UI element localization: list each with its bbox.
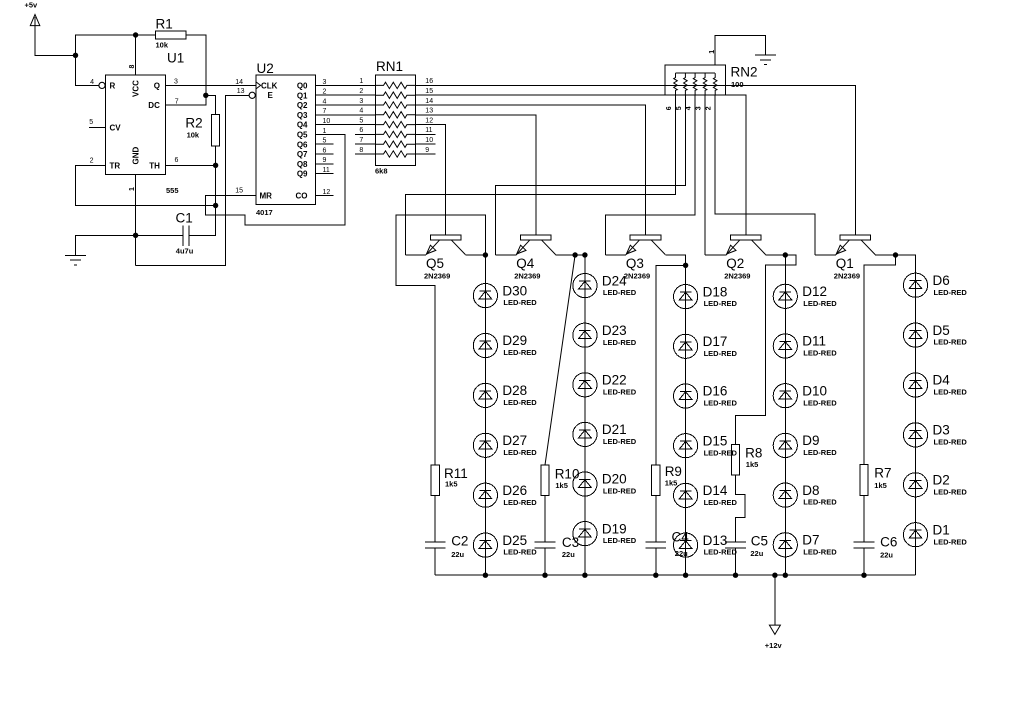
svg-text:16: 16 [425,78,433,85]
U1 pin names [110,80,161,170]
svg-text:2: 2 [706,106,713,110]
svg-text:LED-RED: LED-RED [603,387,637,396]
LED D21 [573,422,637,446]
wire LED column D18-D13 [685,285,687,576]
svg-text:LED-RED: LED-RED [803,349,837,358]
wire bottom supply rail [435,574,915,576]
svg-text:C4: C4 [672,529,690,544]
U2 enable pin bubble [249,92,255,98]
svg-text:14: 14 [425,98,433,105]
svg-text:D29: D29 [502,333,527,348]
resistor R8 [731,445,762,476]
svg-text:D14: D14 [703,483,728,498]
svg-text:5: 5 [359,117,363,124]
svg-text:R8: R8 [745,446,762,461]
svg-text:2: 2 [359,88,363,95]
wire +5v junction down to U1 R pin [76,55,100,85]
LED D12 [773,284,837,308]
U2 pin names left [260,81,278,200]
wire RN2 pin6 to Q5 emitter [405,95,675,255]
svg-text:D3: D3 [933,423,950,438]
svg-text:LED-RED: LED-RED [934,537,968,546]
svg-text:R9: R9 [665,464,682,479]
junction column D13 rail [683,573,688,578]
capacitor C1 [136,211,194,256]
svg-text:D8: D8 [802,483,819,498]
U2 output pin names [296,82,309,201]
svg-text:3: 3 [323,79,327,86]
svg-text:10k: 10k [187,131,200,140]
svg-text:Q0: Q0 [297,82,308,91]
svg-text:7: 7 [323,108,327,115]
svg-text:2N2369: 2N2369 [834,272,860,281]
wire RN2 pin3 to Q2 emitter [704,95,706,255]
LED D27 [473,433,537,457]
svg-text:D10: D10 [802,383,827,398]
U2 pin numbers [235,79,330,196]
svg-text:LED-RED: LED-RED [503,548,537,557]
svg-text:GND: GND [132,147,141,165]
RN2 bottom pin numbers [666,106,713,110]
wire C2 to rail [434,548,436,575]
resistor network RN1 body [375,59,416,175]
svg-text:D22: D22 [602,373,627,388]
svg-text:LED-RED: LED-RED [803,498,837,507]
svg-text:C2: C2 [451,534,468,549]
svg-text:TR: TR [110,161,121,170]
transistor Q4 [514,235,555,281]
RN1 internal resistor row 2 [375,92,415,98]
svg-text:D12: D12 [802,284,827,299]
svg-text:LED-RED: LED-RED [503,498,537,507]
LED D20 [573,472,637,496]
svg-text:D17: D17 [703,334,728,349]
wire LED column D24-D19 [584,274,586,576]
svg-text:C5: C5 [751,534,768,549]
RN1 internal resistor row 8 [375,151,415,157]
wire C4 to rail [655,548,657,575]
LED D30 [473,283,537,307]
LED D24 [573,273,637,297]
resistor R10 [541,465,580,496]
svg-text:15: 15 [235,187,243,194]
svg-text:13: 13 [237,88,245,95]
svg-text:22u: 22u [750,549,763,558]
svg-text:4u7u: 4u7u [176,247,194,256]
svg-text:Q5: Q5 [297,131,308,140]
junction column D7 rail [783,573,788,578]
ground symbol left [65,255,86,265]
svg-text:LED-RED: LED-RED [934,438,968,447]
power +12v symbol [765,575,783,650]
svg-text:C3: C3 [562,535,579,550]
svg-text:3: 3 [174,79,178,86]
svg-text:555: 555 [166,186,179,195]
wire R11 to C2 [434,496,436,543]
wire Q3 emitter stub [606,254,626,256]
svg-text:12: 12 [323,189,331,196]
svg-text:Q7: Q7 [297,150,308,159]
svg-text:10k: 10k [156,40,169,49]
junction Q2 collector node [783,252,788,257]
svg-text:1k5: 1k5 [665,478,678,487]
junction Q3 collector node [683,263,688,268]
svg-text:D26: D26 [502,483,527,498]
svg-text:LED-RED: LED-RED [704,299,738,308]
svg-text:D24: D24 [602,273,627,288]
svg-text:9: 9 [425,147,429,154]
wire LED column D30-D25 [484,284,486,576]
wire Q4 emitter stub [496,254,517,256]
LED D8 [773,483,837,507]
capacitor C6 [854,535,898,560]
svg-text:D13: D13 [703,533,728,548]
svg-text:3: 3 [359,98,363,105]
svg-text:LED-RED: LED-RED [704,399,738,408]
wire R9 to C4 [655,496,657,543]
wire U1 TR pin2 to node B [76,165,216,205]
svg-text:22u: 22u [451,550,464,559]
junction TH node [213,163,218,168]
svg-text:R: R [110,81,116,90]
RN1 internal resistor row 3 [375,102,415,108]
svg-text:14: 14 [235,79,243,86]
wire GND node to ground [76,235,136,255]
U1 pin numbers [89,65,179,192]
svg-text:Q3: Q3 [626,256,644,271]
svg-text:+5v: +5v [25,1,39,10]
resistor R1 [136,17,186,50]
svg-text:LED-RED: LED-RED [704,349,738,358]
svg-text:RN1: RN1 [376,59,403,74]
svg-text:D23: D23 [602,323,627,338]
IC U2 4017 body [256,61,316,217]
junction GND node [133,233,138,238]
wire R8 to C5 with jog [736,475,746,542]
svg-text:2: 2 [323,89,327,96]
svg-text:100: 100 [731,80,744,89]
svg-text:5: 5 [323,138,327,145]
RN2 internal resistor pin 2 [713,73,717,95]
wire Q3 collector to column D18 and R9 [656,255,686,465]
resistor R11 [431,465,468,496]
svg-text:1k5: 1k5 [874,481,887,490]
svg-text:6: 6 [175,157,179,164]
LED D11 [773,334,837,358]
svg-text:MR: MR [260,191,273,200]
wire RN1 pin12 to Q5 base [416,125,446,236]
wire +5v junction up to R1/VCC rail [76,35,136,55]
resistor R7 [860,465,892,496]
svg-text:U2: U2 [257,61,274,76]
wire LED column D12-D7 [784,284,786,575]
junction Q4 collector node 2 [582,252,587,257]
svg-text:D25: D25 [502,533,527,548]
svg-text:RN2: RN2 [731,65,758,80]
svg-text:D19: D19 [602,521,627,536]
junction node A (R1/DC/R2) [203,93,208,98]
svg-text:C6: C6 [880,535,897,550]
junction C5 rail [733,573,738,578]
svg-text:6: 6 [323,147,327,154]
svg-text:LED-RED: LED-RED [503,298,537,307]
RN2 internal resistor pin 4 [693,73,697,95]
svg-text:Q5: Q5 [426,256,444,271]
junction column D25 rail [483,573,488,578]
junction +5v node [73,53,78,58]
svg-text:2: 2 [90,157,94,164]
RN1 internal resistor row 4 [375,112,415,118]
transistor Q3 [624,235,665,281]
LED D2 [903,473,967,497]
svg-text:4: 4 [359,108,363,115]
svg-text:22u: 22u [880,551,893,560]
wire LED column D6-D1 [915,273,917,575]
svg-text:15: 15 [425,88,433,95]
svg-text:22u: 22u [562,550,575,559]
wire VCC node down to U1 pin 8 [135,35,137,75]
svg-text:10: 10 [425,137,433,144]
RN1 left stub wires pins 6-8 [355,134,375,154]
svg-text:1: 1 [359,78,363,85]
svg-text:5: 5 [89,119,93,126]
svg-text:R10: R10 [555,467,580,482]
LED D6 [903,273,967,297]
wire Q1 emitter stub [815,254,836,256]
wire Q5 collector to column D30 and R11 [396,215,486,465]
LED D15 [674,433,738,457]
junction +12v rail tap [772,573,777,578]
wire C3 to rail [544,548,546,575]
junction column D19 rail [582,573,587,578]
svg-text:6: 6 [359,127,363,134]
svg-text:Q: Q [154,81,160,90]
wire Q5 emitter stub [405,254,426,256]
svg-text:R7: R7 [874,466,891,481]
svg-text:CLK: CLK [261,81,278,90]
junction Q4 collector node 1 [572,252,577,257]
RN1 pin numbers [359,78,433,154]
svg-text:4: 4 [323,98,327,105]
svg-text:LED-RED: LED-RED [934,338,968,347]
wire C6 to rail [863,548,865,575]
svg-text:LED-RED: LED-RED [803,547,837,556]
wire Q1 collector to column D6 and R7 [864,255,916,465]
wire R7 to C6 [863,496,865,543]
svg-text:C1: C1 [176,211,193,226]
svg-text:R2: R2 [185,116,202,131]
svg-text:LED-RED: LED-RED [704,548,738,557]
wire RN1 pin13 to Q4 base [416,115,536,235]
wire R1 right to node A [186,35,206,95]
capacitor C5 [725,534,768,558]
wires U2 Q0-Q4 to RN1 pins 1-5 [316,85,376,124]
wire RN2 pin2 to Q1 emitter [715,95,815,255]
svg-text:LED-RED: LED-RED [934,487,968,496]
LED D1 [903,522,967,546]
RN1 right stub wires pins 11-9 [416,134,436,154]
svg-text:D4: D4 [933,373,951,388]
LED D5 [903,323,967,347]
wire U2 MR pin15 to U2 Q5 pin1 net [205,134,345,225]
svg-text:11: 11 [425,127,432,134]
LED D9 [773,433,837,457]
LED D16 [674,384,738,408]
svg-text:D7: D7 [802,533,819,548]
svg-text:D20: D20 [602,472,627,487]
svg-text:LED-RED: LED-RED [603,536,637,545]
junction VCC node [133,32,138,37]
wire RN2 pin5 to Q4 emitter [496,95,686,255]
U2 clock triangle [256,82,261,89]
U2 output stub wires [316,144,334,195]
svg-text:CO: CO [296,191,308,200]
svg-text:D27: D27 [502,433,527,448]
svg-text:+12v: +12v [765,641,783,650]
svg-text:Q6: Q6 [297,140,308,149]
wire U1 Q pin3 to U2 CLK [166,84,257,86]
svg-text:Q8: Q8 [297,160,308,169]
svg-text:Q1: Q1 [297,91,308,100]
svg-text:LED-RED: LED-RED [603,338,637,347]
svg-text:7: 7 [359,137,363,144]
svg-text:R1: R1 [156,17,173,32]
svg-text:D30: D30 [502,283,527,298]
svg-text:13: 13 [425,108,433,115]
svg-text:5: 5 [676,106,683,110]
svg-text:4: 4 [90,79,94,86]
U1 reset pin bubble [99,82,105,88]
svg-text:Q2: Q2 [726,256,744,271]
junction C4 rail [653,573,658,578]
LED D10 [773,383,837,407]
svg-text:LED-RED: LED-RED [503,448,537,457]
svg-text:2N2369: 2N2369 [724,272,750,281]
capacitor C3 [535,535,579,559]
svg-text:6: 6 [666,106,673,110]
svg-text:VCC: VCC [132,80,141,97]
LED D18 [674,284,738,308]
RN1 internal resistor row 5 [375,121,415,127]
svg-text:1: 1 [129,187,136,191]
svg-text:D16: D16 [703,384,728,399]
svg-text:2N2369: 2N2369 [624,272,650,281]
svg-text:LED-RED: LED-RED [934,288,968,297]
svg-text:D15: D15 [703,433,728,448]
svg-text:Q4: Q4 [516,256,535,271]
RN1 internal resistor row 6 [375,131,415,137]
svg-text:1k5: 1k5 [746,460,759,469]
svg-text:1k5: 1k5 [555,481,568,490]
capacitor C2 [425,534,469,560]
svg-text:E: E [268,91,274,100]
LED D23 [573,323,637,347]
RN2 internal resistor pin 6 [674,73,678,95]
wire Q2 collector to column D12 and R8 [736,255,796,445]
svg-text:8: 8 [129,65,136,69]
wire U1 TH pin6 to R2 bottom [166,164,216,166]
LED D25 [473,533,537,557]
wire C5 to rail [735,548,737,575]
svg-text:D1: D1 [933,522,950,537]
wire RN1 pin15 to Q2 base [416,95,746,235]
svg-text:Q1: Q1 [836,256,854,271]
svg-text:D6: D6 [933,273,950,288]
svg-text:LED-RED: LED-RED [503,398,537,407]
svg-text:LED-RED: LED-RED [704,448,738,457]
wire RN1 pin14 to Q3 base [416,105,646,235]
wire R2 bottom through TH and TR nodes to C1 right [189,146,216,236]
LED D19 [573,521,637,545]
wire Q2 emitter stub [705,254,726,256]
svg-text:D21: D21 [602,422,627,437]
LED D17 [674,334,738,358]
wire node A to R2 top [206,95,216,114]
svg-text:LED-RED: LED-RED [803,398,837,407]
resistor R9 [652,464,682,495]
svg-text:Q9: Q9 [297,170,308,179]
RN2 internal resistor pin 3 [703,73,707,95]
wire Q4 collector to column D24 and diagonal to R10 [545,255,585,465]
LED D28 [473,383,537,407]
power +5v symbol [25,1,40,26]
svg-text:1: 1 [323,128,327,135]
svg-text:2N2369: 2N2369 [514,272,540,281]
RN2 pin 1 wire to ground [709,35,765,65]
LED D4 [903,373,967,397]
svg-text:D9: D9 [802,433,819,448]
transistor Q5 [424,235,465,281]
svg-text:CV: CV [110,124,122,133]
wire R10 to C3 [544,496,546,543]
capacitor C4 [646,529,690,557]
svg-text:Q3: Q3 [297,111,308,120]
ground symbol right [755,55,776,65]
LED D7 [773,533,837,557]
junction C6 rail [861,573,866,578]
svg-text:TH: TH [149,161,160,170]
LED D3 [903,423,967,447]
svg-text:DC: DC [148,101,160,110]
resistor network RN2 body [665,65,757,95]
svg-text:LED-RED: LED-RED [603,437,637,446]
svg-text:Q4: Q4 [297,121,308,130]
svg-text:LED-RED: LED-RED [704,498,738,507]
LED D26 [473,483,537,507]
svg-text:D11: D11 [802,334,826,349]
svg-text:8: 8 [359,147,363,154]
transistor Q1 [834,235,875,281]
svg-text:LED-RED: LED-RED [603,288,637,297]
LED D29 [473,333,537,357]
svg-text:D28: D28 [502,383,527,398]
LED D22 [573,373,637,397]
svg-text:1k5: 1k5 [445,479,458,488]
wire U1 CV pin5 stub [89,127,105,129]
wire +5v to junction [35,17,76,55]
svg-text:LED-RED: LED-RED [603,487,637,496]
transistor Q2 [724,235,765,281]
LED D13 [674,533,738,557]
svg-text:3: 3 [696,106,703,110]
wire ground net to U2 E pin [136,95,249,265]
svg-text:10: 10 [323,118,331,125]
svg-text:2N2369: 2N2369 [424,272,450,281]
svg-text:11: 11 [323,167,330,174]
svg-text:4017: 4017 [256,208,273,217]
IC U1 555 body [105,51,184,195]
svg-text:12: 12 [425,117,433,124]
